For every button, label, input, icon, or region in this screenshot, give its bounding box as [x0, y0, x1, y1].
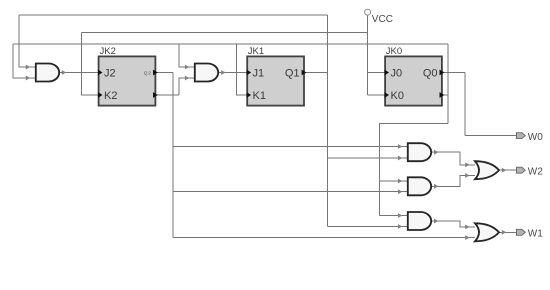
- arrow O1 in1: [465, 162, 470, 167]
- arrow A2 out: [434, 184, 439, 189]
- arrow O2 in1: [465, 225, 470, 230]
- wire Q2bar riser to G2 input2: [179, 78, 195, 95]
- wire net Q0bar right vertical: [447, 44, 449, 124]
- wire net VCC left vertical down to K2: [82, 33, 99, 96]
- svg-text:Q2: Q2: [144, 70, 152, 75]
- wire net VCC horizontal to K2: [82, 32, 368, 34]
- pin K2 input triangle: [98, 92, 103, 98]
- arrow O1 out: [502, 168, 507, 173]
- pin Q2bar output triangle: [153, 92, 158, 98]
- wire net Q2 branch to AND2 input2: [173, 191, 408, 193]
- wire net Q0bar branch to AND2 input1: [379, 180, 407, 182]
- wire Q1 pin to vertical: [305, 72, 328, 74]
- wire net Q1 branch to AND1 input2: [328, 157, 408, 159]
- arrow A3 in1: [398, 213, 403, 218]
- wire G1 output to J2: [59, 72, 99, 74]
- wire net Q1 main vertical: [327, 15, 329, 227]
- arrow G2 in2: [185, 76, 190, 81]
- output tag W1: [517, 229, 544, 240]
- svg-text:J0: J0: [391, 67, 403, 79]
- svg-text:K0: K0: [391, 90, 404, 102]
- svg-text:W2: W2: [528, 167, 543, 178]
- AND gate A1: [408, 143, 431, 161]
- arrow A3 out: [434, 219, 439, 224]
- arrow A1 out: [434, 150, 439, 155]
- wire Q2 pin to vertical: [156, 72, 173, 74]
- arrow O2 in2: [465, 235, 470, 240]
- wire OR2 output to W1 tag: [499, 231, 517, 233]
- pin Q0 output triangle: [440, 70, 445, 76]
- OR gate O1: [475, 161, 499, 179]
- wire AND1 output to OR1 input1: [431, 152, 475, 165]
- wire AND2 output to OR1 input2: [431, 176, 475, 187]
- arrow A2 in1: [398, 179, 403, 184]
- arrow G1 in1: [26, 65, 31, 70]
- pin K0 input triangle: [385, 92, 390, 98]
- AND gate G2: [195, 64, 218, 82]
- pin Q0bar output triangle: [440, 92, 445, 98]
- pin J1 input triangle: [247, 70, 252, 76]
- wire net Q2 main vertical: [172, 73, 174, 238]
- arrow O2 out: [502, 230, 507, 235]
- svg-text:W1: W1: [528, 229, 543, 240]
- wire net Q0bar corner to AND3 input1: [379, 215, 407, 217]
- wire G2 output to J1: [218, 72, 247, 74]
- JK flip-flop JK1 body: [247, 46, 304, 106]
- wire net VCC branch to J0: [368, 72, 385, 74]
- pin Q1 output triangle: [302, 70, 307, 76]
- wire net Q0bar lower route left: [379, 124, 448, 216]
- wire Q2bar pin to riser: [156, 94, 179, 96]
- pin J2 input triangle: [98, 70, 103, 76]
- svg-text:JK2: JK2: [100, 46, 116, 57]
- JK flip-flop JK0 body: [385, 46, 442, 106]
- svg-text:K2: K2: [104, 90, 117, 102]
- svg-text:W0: W0: [528, 132, 543, 143]
- wire net Q1 top horizontal: [19, 14, 328, 16]
- AND gate G1: [36, 64, 59, 82]
- output tag W2: [517, 167, 544, 178]
- pin Q2 output triangle: [153, 70, 158, 76]
- wire net Q0 vertical: [464, 73, 466, 136]
- svg-text:J2: J2: [104, 67, 116, 79]
- arrow A1 in2: [398, 156, 403, 161]
- wire net Q0 to W0 tag: [465, 135, 516, 137]
- wire net Q0bar top horizontal: [13, 43, 448, 45]
- OR gate O2: [475, 223, 499, 241]
- wire AND3 output to OR2 input1: [431, 221, 475, 227]
- wire VCC stem vertical: [367, 15, 369, 95]
- AND gate A3: [408, 212, 431, 230]
- wire direction arrows: [26, 65, 507, 240]
- svg-text:J1: J1: [253, 67, 265, 79]
- arrow G2 out: [221, 70, 226, 75]
- svg-text:K1: K1: [253, 90, 266, 102]
- wire Q0bar pin stub: [442, 94, 448, 96]
- wire net Q0bar branch down to K1: [236, 44, 247, 95]
- wire net Q0bar left vertical to G1 input2: [13, 44, 36, 78]
- arrow A3 in2: [398, 224, 403, 229]
- svg-text:JK1: JK1: [248, 46, 264, 57]
- arrow G1 in2: [26, 76, 31, 81]
- wire net VCC corner to K0: [368, 94, 385, 96]
- wire OR1 output to W2 tag: [499, 169, 517, 171]
- wire net Q0bar branch down to G2 input1: [179, 44, 195, 67]
- AND gate A2: [408, 177, 431, 195]
- arrow G2 in1: [185, 65, 190, 70]
- JK flip-flop JK2 body: [99, 46, 156, 106]
- arrow A1 in1: [398, 144, 403, 149]
- output tag W0: [517, 132, 544, 143]
- arrow O1 in2: [465, 173, 470, 178]
- svg-text:VCC: VCC: [372, 14, 393, 25]
- wire Q0 pin horizontal: [442, 72, 465, 74]
- arrow A2 in2: [398, 189, 403, 194]
- wire net Q2 bottom run to OR2 input2: [173, 237, 475, 239]
- VCC power symbol: [365, 9, 393, 25]
- svg-text:JK0: JK0: [386, 46, 402, 57]
- wire net Q1 left vertical to AND G1 input1: [19, 15, 36, 67]
- wire net Q2 branch to AND1 input1: [173, 146, 408, 148]
- svg-text:Q0: Q0: [423, 67, 438, 79]
- arrow G1 out: [62, 70, 67, 75]
- pin J0 input triangle: [385, 70, 390, 76]
- wire net Q1 corner to AND3 input2: [328, 226, 408, 228]
- pin K1 input triangle: [247, 92, 252, 98]
- svg-text:Q1: Q1: [285, 67, 300, 79]
